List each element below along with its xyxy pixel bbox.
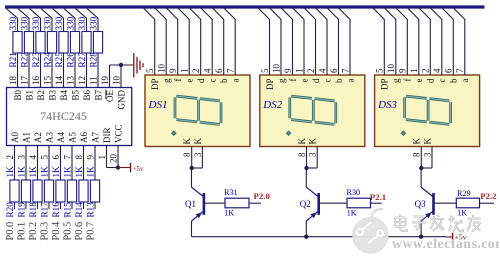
svg-text:11: 11 <box>88 76 98 85</box>
svg-text:B7: B7 <box>94 90 104 101</box>
svg-text:B1: B1 <box>25 90 35 101</box>
svg-text:B3: B3 <box>48 90 58 101</box>
wire bus entry and vertical net for B1 <box>18 9 29 88</box>
svg-text:R20: R20 <box>5 202 15 218</box>
pin name c <box>322 79 332 83</box>
pin number 9 (DS3 f) <box>398 68 408 73</box>
pin number 12 (74HC245 B6) <box>77 76 87 85</box>
wire base Q1 to R31 <box>204 202 225 204</box>
pin number 4 <box>28 155 38 160</box>
net label P0.4 <box>51 222 62 241</box>
svg-text:DS3: DS3 <box>377 99 397 111</box>
svg-text:3: 3 <box>308 152 318 157</box>
svg-text:R27: R27 <box>77 52 87 68</box>
svg-text:9: 9 <box>168 68 178 73</box>
wire R31 to net P2.0 <box>249 202 261 204</box>
pin number 1 (DS3 e) <box>409 69 419 74</box>
pin number 3 <box>16 155 26 160</box>
svg-text:10: 10 <box>111 76 121 86</box>
svg-text:DP: DP <box>150 79 160 91</box>
wire A2 to P0.2 <box>37 146 39 210</box>
junction DS2 cathode node <box>304 166 308 170</box>
svg-text:g: g <box>391 78 401 83</box>
svg-text:330: 330 <box>54 16 64 30</box>
wire DS3 pin e to bus <box>407 7 419 75</box>
svg-text:9: 9 <box>283 68 293 73</box>
pin number 5 (DS1 DP) <box>145 68 155 73</box>
svg-text:4: 4 <box>432 68 442 73</box>
svg-text:1K: 1K <box>5 166 15 178</box>
pin number 14 (74HC245 B4) <box>54 76 64 86</box>
svg-text:OE: OE <box>105 90 115 102</box>
watermark url www.elecfans.com <box>392 236 500 251</box>
wire DS3 pin c to bus <box>430 7 442 75</box>
junction VCC node <box>116 165 120 169</box>
svg-text:8: 8 <box>412 152 422 157</box>
pin number 5 (DS3 DP) <box>375 68 385 73</box>
svg-text:a: a <box>460 79 470 83</box>
wire A4 to P0.4 <box>60 146 62 210</box>
pin name A4 <box>56 132 66 143</box>
svg-text:R23: R23 <box>31 52 41 68</box>
net label P2.2 <box>480 191 497 201</box>
resistor R31 1K <box>224 188 249 218</box>
pin name f <box>173 79 183 82</box>
pin name B6 <box>82 90 92 101</box>
svg-text:e: e <box>185 79 195 83</box>
power +5v at VCC <box>118 163 144 173</box>
junction rail Q3 <box>419 235 423 239</box>
wire DS2 pin DP to bus <box>258 7 270 75</box>
svg-text:g: g <box>162 78 172 83</box>
svg-text:R26: R26 <box>65 52 75 68</box>
svg-text:R31: R31 <box>224 188 238 197</box>
wire DS3 pin DP to bus <box>372 7 384 75</box>
resistor R25 330 <box>54 16 68 67</box>
resistor R22 330 <box>19 16 33 67</box>
svg-text:330: 330 <box>19 16 29 30</box>
wire bus entry and vertical net for B6 <box>76 9 87 88</box>
svg-text:20: 20 <box>108 154 118 164</box>
pin name DP <box>150 79 160 91</box>
wire bus entry and vertical net for B0 <box>7 9 18 88</box>
pin name K (DS3 cathode 3) <box>422 138 432 145</box>
resistor R27 330 <box>77 16 91 67</box>
svg-text:8: 8 <box>182 152 192 157</box>
power +5v at rail <box>447 232 467 241</box>
svg-text:8: 8 <box>297 152 307 157</box>
svg-text:b: b <box>219 78 229 83</box>
wire DS1 pin f to bus <box>166 7 178 75</box>
wire pin 19 OE stub <box>109 65 111 88</box>
resistor R30 1K <box>347 188 371 218</box>
svg-text:15: 15 <box>42 76 52 86</box>
wire DS2 pin c to bus <box>315 7 327 75</box>
pin name b <box>219 78 229 83</box>
junction OE-GND node <box>119 63 123 67</box>
pin number 6 <box>51 155 61 160</box>
net label P0.3 <box>39 222 50 241</box>
wire emitter rail <box>192 236 447 238</box>
wire collector Q1 <box>191 168 193 187</box>
junction DS3 cathode node <box>419 166 423 170</box>
svg-text:330: 330 <box>88 16 98 30</box>
pin name GND <box>117 90 127 110</box>
pin name g <box>162 78 172 83</box>
pin name a <box>345 79 355 83</box>
svg-text:Q2: Q2 <box>300 199 311 209</box>
svg-text:www.elecfans.com: www.elecfans.com <box>392 236 500 251</box>
pin number 2 (DS1 d) <box>191 69 201 74</box>
svg-text:DIR: DIR <box>102 128 112 144</box>
svg-text:10: 10 <box>271 64 281 74</box>
transistor Q2 PNP <box>300 187 319 221</box>
pin number 9 (DS2 f) <box>283 68 293 73</box>
resistor R26 330 <box>65 16 79 67</box>
svg-text:1K: 1K <box>74 166 84 178</box>
svg-text:DP: DP <box>265 79 275 91</box>
wire collector Q3 <box>420 168 422 187</box>
svg-text:GND: GND <box>117 90 127 110</box>
pin number 16 (74HC245 B2) <box>31 76 41 86</box>
pin name DP <box>380 79 390 91</box>
svg-text:2: 2 <box>5 155 15 160</box>
wire DS2 K pins join <box>307 147 318 169</box>
resistor R16 1K <box>51 166 65 218</box>
svg-text:6: 6 <box>214 68 224 73</box>
wire DS1 pin e to bus <box>177 7 189 75</box>
svg-text:2: 2 <box>421 69 431 74</box>
pin number 8 <box>182 152 192 157</box>
net label P0.5 <box>62 222 73 241</box>
pin name A2 <box>33 132 43 143</box>
pin number 1 (DS1 e) <box>180 69 190 74</box>
svg-text:DS2: DS2 <box>262 99 282 111</box>
svg-text:R22: R22 <box>19 52 29 68</box>
pin number 4 (DS3 c) <box>432 68 442 73</box>
svg-text:Q3: Q3 <box>415 199 426 209</box>
resistor R29 1K <box>456 189 479 217</box>
pin name DIR <box>102 128 112 144</box>
svg-text:1K: 1K <box>16 166 26 178</box>
svg-text:P0.7: P0.7 <box>85 222 96 241</box>
7-segment display DS2 body <box>260 75 365 147</box>
svg-text:1: 1 <box>97 155 107 160</box>
wire A5 to P0.5 <box>71 146 73 210</box>
pin number 11 (74HC245 B7) <box>88 76 98 85</box>
watermark text dianzifashaoyou (drawn strokes) <box>395 215 481 232</box>
svg-text:1K: 1K <box>28 166 38 178</box>
wire DS1 pin a to bus <box>223 7 235 75</box>
wire emitter Q1 to rail <box>191 221 193 237</box>
resistor R19 1K <box>16 166 30 218</box>
svg-text:1: 1 <box>180 69 190 74</box>
svg-text:e: e <box>299 79 309 83</box>
wire DS3 pin d to bus <box>418 7 430 75</box>
pin name A0 <box>10 132 20 143</box>
resistor R21 330 <box>8 16 22 67</box>
pin name B7 <box>94 90 104 101</box>
wire DS1 pin b to bus <box>212 7 224 75</box>
wire emitter Q2 to rail <box>305 221 307 237</box>
pin name d <box>311 78 321 83</box>
wire DS2 pin a to bus <box>338 7 350 75</box>
pin name g <box>391 78 401 83</box>
svg-text:A5: A5 <box>68 132 78 143</box>
resistor R14 1K <box>74 166 88 218</box>
svg-text:a: a <box>345 79 355 83</box>
pin name g <box>276 78 286 83</box>
wire A1 to P0.1 <box>25 146 27 210</box>
svg-text:5: 5 <box>145 68 155 73</box>
pin name A3 <box>45 132 55 143</box>
pin number 4 (DS2 c) <box>317 68 327 73</box>
wire DS1 K pins join <box>192 147 203 169</box>
svg-text:B4: B4 <box>59 90 69 101</box>
pin number 3 <box>422 152 432 157</box>
pin name d <box>196 78 206 83</box>
svg-text:1K: 1K <box>62 166 72 178</box>
pin number 7 <box>62 155 72 160</box>
svg-text:4: 4 <box>203 68 213 73</box>
bus (top horizontal data bus) <box>5 5 485 8</box>
svg-text:R25: R25 <box>54 52 64 68</box>
wire DS3 pin b to bus <box>441 7 453 75</box>
designator DS3 <box>377 99 397 111</box>
svg-text:P0.5: P0.5 <box>62 222 73 241</box>
svg-text:d: d <box>426 78 436 83</box>
svg-text:c: c <box>437 79 447 83</box>
pin number 13 (74HC245 B5) <box>65 76 75 86</box>
svg-text:330: 330 <box>42 16 52 30</box>
svg-text:c: c <box>208 79 218 83</box>
svg-text:330: 330 <box>65 16 75 30</box>
svg-text:3: 3 <box>193 152 203 157</box>
wire collector Q2 <box>305 168 307 187</box>
svg-text:17: 17 <box>19 76 29 86</box>
pin name a <box>460 79 470 83</box>
pin number 18 (74HC245 B0) <box>8 76 18 86</box>
svg-text:P0.2: P0.2 <box>28 222 39 241</box>
pin name A6 <box>79 132 89 143</box>
DS3 seven-segment digit glyph <box>405 96 451 124</box>
pin name e <box>414 79 424 83</box>
wire A6 to P0.6 <box>83 146 85 210</box>
svg-text:7: 7 <box>226 68 236 73</box>
net label P2.0 <box>254 191 271 201</box>
svg-text:5: 5 <box>39 155 49 160</box>
svg-text:6: 6 <box>329 68 339 73</box>
resistor R28 330 <box>88 16 102 67</box>
pin number 10 (DS1 g) <box>157 64 167 74</box>
pin number 2 (DS3 d) <box>421 69 431 74</box>
pin number 3 <box>308 152 318 157</box>
svg-text:f: f <box>403 79 413 82</box>
svg-text:VCC: VCC <box>114 124 124 143</box>
svg-text:4: 4 <box>28 155 38 160</box>
pin number 9 <box>85 155 95 160</box>
svg-text:R17: R17 <box>39 202 49 218</box>
wire DS2 pin b to bus <box>327 7 339 75</box>
wire emitter Q3 to rail <box>420 221 422 237</box>
pin number 8 <box>412 152 422 157</box>
svg-text:2: 2 <box>306 69 316 74</box>
svg-text:P0.4: P0.4 <box>51 222 62 241</box>
svg-text:1K: 1K <box>39 166 49 178</box>
pin name f <box>403 79 413 82</box>
wire DS2 pin f to bus <box>281 7 293 75</box>
pin number 9 (DS1 f) <box>168 68 178 73</box>
svg-text:P0.6: P0.6 <box>74 222 85 241</box>
pin number 10 (DS3 g) <box>386 64 396 74</box>
svg-text:R29: R29 <box>457 189 471 198</box>
svg-text:c: c <box>322 79 332 83</box>
pin name K (DS2 cathode 3) <box>308 138 318 145</box>
svg-text:18: 18 <box>8 76 18 86</box>
resistor R17 1K <box>39 166 53 218</box>
svg-text:A1: A1 <box>22 132 32 143</box>
svg-text:2: 2 <box>191 69 201 74</box>
wire DIR to VCC <box>107 167 119 169</box>
pin number 15 (74HC245 B3) <box>42 76 52 86</box>
svg-text:a: a <box>231 79 241 83</box>
svg-text:74HC245: 74HC245 <box>40 109 87 123</box>
wire DS2 pin d to bus <box>304 7 316 75</box>
svg-text:B2: B2 <box>36 90 46 101</box>
svg-text:1: 1 <box>409 69 419 74</box>
watermark logo circle <box>353 209 388 253</box>
wire DS3 pin f to bus <box>395 7 407 75</box>
pin name DP <box>265 79 275 91</box>
wire OE/GND to ground <box>110 64 129 66</box>
svg-text:P0.0: P0.0 <box>5 222 16 241</box>
svg-text:1K: 1K <box>51 166 61 178</box>
wire bus entry and vertical net for B4 <box>53 9 64 88</box>
wire R30 to net P2.1 <box>371 202 382 204</box>
svg-text:b: b <box>334 78 344 83</box>
svg-text:P0.3: P0.3 <box>39 222 50 241</box>
pin name OE (active low) <box>105 90 115 103</box>
svg-text:1K: 1K <box>347 208 357 217</box>
pin number 20 <box>108 154 118 164</box>
pin number 8 <box>74 155 84 160</box>
wire bus entry and vertical net for B5 <box>64 9 75 88</box>
svg-text:1K: 1K <box>224 208 234 217</box>
svg-text:P0.1: P0.1 <box>16 222 27 241</box>
wire DS3 K pins join <box>421 147 432 169</box>
resistor R24 330 <box>42 16 56 67</box>
pin name c <box>208 79 218 83</box>
wire DIR down <box>106 146 108 168</box>
svg-text:R19: R19 <box>16 202 26 218</box>
DS1 seven-segment digit glyph <box>175 96 221 124</box>
pin number 4 (DS1 c) <box>203 68 213 73</box>
designator DS1 <box>148 99 168 111</box>
svg-text:d: d <box>311 78 321 83</box>
svg-text:R14: R14 <box>74 202 84 218</box>
svg-text:330: 330 <box>31 16 41 30</box>
svg-text:330: 330 <box>8 16 18 30</box>
wire R29 to net P2.2 <box>480 202 495 204</box>
pin number 17 (74HC245 B1) <box>19 76 29 86</box>
wire DS3 pin a to bus <box>453 7 465 75</box>
svg-text:B5: B5 <box>71 90 81 101</box>
svg-text:330: 330 <box>77 16 87 30</box>
DS2 seven-segment digit glyph <box>290 96 336 124</box>
pin name c <box>437 79 447 83</box>
wire DS1 pin d to bus <box>189 7 201 75</box>
wire A7 to P0.7 <box>94 146 96 210</box>
svg-text:K: K <box>182 138 192 145</box>
pin number 1 (DS2 e) <box>294 69 304 74</box>
pin name A7 <box>91 132 101 143</box>
svg-text:DS1: DS1 <box>148 99 168 111</box>
pin name B1 <box>25 90 35 101</box>
svg-text:B0: B0 <box>13 90 23 101</box>
svg-text:f: f <box>288 79 298 82</box>
net label P0.2 <box>28 222 39 241</box>
svg-text:R21: R21 <box>8 52 18 68</box>
svg-text:A7: A7 <box>91 132 101 143</box>
svg-text:3: 3 <box>422 152 432 157</box>
resistor R20 1K <box>5 166 19 218</box>
ground symbol <box>129 53 144 78</box>
wire DS2 pin e to bus <box>292 7 304 75</box>
pin name K (DS1 cathode 3) <box>193 138 203 145</box>
wire VCC down <box>117 146 119 168</box>
pin name VCC <box>114 124 124 143</box>
pin number 7 (DS3 a) <box>455 68 465 73</box>
junction rail Q2 <box>304 235 308 239</box>
7-segment display DS1 body <box>145 75 250 147</box>
svg-text:1: 1 <box>294 69 304 74</box>
pin number 1 <box>97 155 107 160</box>
pin name A5 <box>68 132 78 143</box>
pin number 7 (DS1 a) <box>226 68 236 73</box>
svg-text:R28: R28 <box>88 52 98 68</box>
net label P2.1 <box>370 192 386 202</box>
pin name d <box>426 78 436 83</box>
svg-text:f: f <box>173 79 183 82</box>
pin name K (DS1 cathode 8) <box>182 138 192 145</box>
net label P0.0 <box>5 222 16 241</box>
pin name A1 <box>22 132 32 143</box>
pin name b <box>449 78 459 83</box>
wire bus entry and vertical net for B7 <box>87 9 98 88</box>
svg-text:K: K <box>297 138 307 145</box>
pin name B4 <box>59 90 69 101</box>
DS1 decimal point <box>172 131 176 135</box>
pin number 5 <box>39 155 49 160</box>
svg-text:7: 7 <box>62 155 72 160</box>
designator DS2 <box>262 99 282 111</box>
svg-text:6: 6 <box>51 155 61 160</box>
net label P0.6 <box>74 222 85 241</box>
svg-text:A4: A4 <box>56 132 66 143</box>
wire bus entry and vertical net for B2 <box>30 9 41 88</box>
IC U1 74HC245 body <box>7 88 132 146</box>
pin name f <box>288 79 298 82</box>
pin number 2 (DS2 d) <box>306 69 316 74</box>
pin name b <box>334 78 344 83</box>
pin name B2 <box>36 90 46 101</box>
wire bus entry and vertical net for B3 <box>41 9 52 88</box>
wire DS1 pin g to bus <box>154 7 166 75</box>
svg-text:3: 3 <box>16 155 26 160</box>
svg-text:R18: R18 <box>28 202 38 218</box>
junction DS1 cathode node <box>190 166 194 170</box>
svg-text:R24: R24 <box>42 52 52 68</box>
